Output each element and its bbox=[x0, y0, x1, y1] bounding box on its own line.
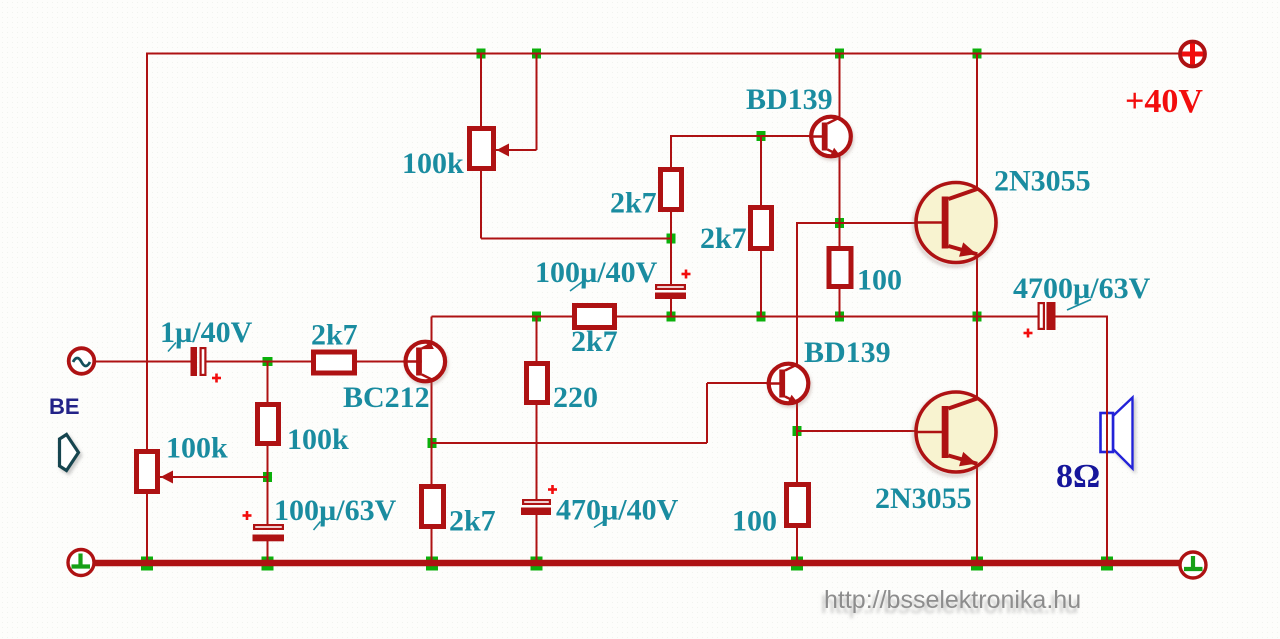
svg-text:+40V: +40V bbox=[1125, 83, 1203, 120]
wire: 100 resistor to output bus bbox=[839, 287, 841, 317]
node: top rail / pot 100k wiper bbox=[532, 49, 541, 59]
node: output bus / 2k7 bbox=[757, 312, 766, 322]
label 2k7 (output bus) bbox=[571, 325, 618, 358]
wire: speaker drop overlay bbox=[1106, 404, 1108, 460]
wire: pot1 wiper up to rail bbox=[536, 54, 538, 151]
capacitor 1u/40V bbox=[191, 347, 222, 383]
wire: 2k7 to BC212 base bbox=[356, 361, 422, 363]
svg-text:BC212: BC212 bbox=[343, 381, 430, 414]
potentiometer 100k (input, bottom-left) bbox=[137, 452, 174, 492]
label 470u/40V bbox=[556, 494, 679, 528]
label 4700u/63V bbox=[1013, 272, 1151, 310]
node: top rail / BD139 collector bbox=[835, 49, 844, 59]
transistor BD139 (lower driver) bbox=[767, 364, 810, 406]
resistor 220 bbox=[527, 364, 548, 403]
node: pot2 wiper junction bbox=[263, 472, 272, 482]
svg-text:BD139: BD139 bbox=[746, 83, 833, 116]
wire: 100u/63V cap to ground rail bbox=[267, 540, 269, 563]
label 100k (input resistor) bbox=[287, 423, 349, 456]
wire: 100k to pot2 wiper node and 100u/63V cap bbox=[267, 445, 269, 525]
transistor 2N3055 (lower output) bbox=[914, 392, 996, 476]
wire: emitter node left to lower BD139 collector bbox=[797, 222, 841, 224]
label 100 (bottom) bbox=[732, 505, 777, 538]
wire: 2k7 (761) bottom to output bus bbox=[760, 249, 762, 317]
node: output bus / 100 resistor bbox=[835, 312, 844, 322]
transistor BC212 (input PNP) bbox=[403, 341, 446, 384]
wire: 2k7 to ground rail bbox=[431, 528, 433, 563]
label 100u/63V bbox=[274, 494, 397, 530]
wire: pot2 wiper to node bbox=[160, 476, 268, 478]
wire: BC212 collector down bbox=[431, 378, 433, 485]
svg-text:100k: 100k bbox=[402, 147, 464, 180]
wire: output bus left segment bbox=[432, 316, 574, 318]
wire: pot1 top from rail bbox=[480, 54, 482, 129]
label BD139 (top) bbox=[746, 83, 833, 116]
wire: pot1 wiper stub bbox=[496, 149, 537, 151]
wire: BD139 base line bbox=[671, 135, 814, 137]
wire: output bus mid segment bbox=[616, 316, 1039, 318]
input arrow marker (BE) bbox=[60, 435, 79, 471]
wire: 220 top to output bus bbox=[536, 317, 538, 364]
wire: top +40V rail bbox=[147, 53, 1180, 55]
wire: 2N3055 collector-emitter vertical bbox=[976, 54, 978, 564]
resistor 2k7 (output bus) bbox=[575, 306, 615, 328]
label 2k7 (input) bbox=[311, 319, 358, 352]
label 1u/40V bbox=[160, 316, 253, 352]
resistor 2k7 (BC212 collector) bbox=[422, 487, 444, 527]
svg-text:2N3055: 2N3055 bbox=[994, 165, 1091, 198]
node: BC212 collector / BD139 base bbox=[428, 438, 437, 448]
label site url bbox=[821, 586, 1081, 619]
wire: 2k7 (761) top to base node bbox=[760, 136, 762, 207]
svg-text:100µ/63V: 100µ/63V bbox=[274, 494, 397, 527]
node: lower BD139 emitter / 2N3055 base bbox=[793, 426, 802, 436]
svg-text:BE: BE bbox=[49, 394, 80, 419]
svg-text:2N3055: 2N3055 bbox=[875, 482, 972, 515]
wire: 2k7 top bend to BD139 base bbox=[670, 135, 672, 169]
wire: BD139 collector from rail / emitter chain bbox=[839, 54, 841, 249]
wire: left rail from +40V down to pot bbox=[146, 53, 148, 451]
svg-text:4700µ/63V: 4700µ/63V bbox=[1013, 272, 1151, 305]
label 2k7 (BC212 collector) bbox=[449, 505, 496, 538]
ground terminal (left) bbox=[68, 550, 94, 576]
transistor BD139 (top driver) bbox=[809, 117, 852, 159]
wire: BD139 emitter node to 2N3055 base bbox=[840, 222, 944, 224]
label +40V bbox=[1125, 83, 1203, 120]
svg-text:2k7: 2k7 bbox=[311, 319, 358, 352]
node: ground rail x=536.5 bbox=[531, 557, 543, 571]
node: ground rail x=432 bbox=[426, 557, 438, 571]
wire: node down to 100u/40V cap bbox=[670, 239, 672, 286]
label BD139 (lower) bbox=[804, 336, 891, 369]
label 100u/40V bbox=[535, 256, 658, 291]
wire: 220 bottom to 470u cap bbox=[536, 403, 538, 500]
wire: output bus to speaker corner bbox=[1055, 316, 1108, 318]
label 100k (pot2) bbox=[166, 432, 228, 465]
wire: 1u cap to 2k7 bbox=[206, 361, 312, 363]
svg-text:http://bsselektronika.hu: http://bsselektronika.hu bbox=[824, 586, 1081, 614]
svg-text:BD139: BD139 bbox=[804, 336, 891, 369]
wire: lower BD139 collector drop bbox=[796, 222, 798, 484]
node: output bus / 220 bbox=[532, 312, 541, 322]
label BC212 bbox=[343, 381, 430, 414]
wire: lower BD139 emitter node to lower 2N3055 base bbox=[797, 430, 943, 432]
capacitor 100u/63V bbox=[243, 511, 285, 541]
node: BD139 base / 2k7 bbox=[757, 131, 766, 141]
node: pot bottom / 2k7 junction bbox=[667, 234, 676, 244]
capacitor 100u/40V bbox=[655, 270, 691, 300]
resistor 2k7 (input) bbox=[314, 352, 355, 373]
signal source (sine input) bbox=[69, 348, 95, 374]
wire: BC212 collector to lower BD139 base run bbox=[432, 442, 707, 444]
node: output bus / 2N3055 emitter bbox=[973, 312, 982, 322]
resistor 100 (top) bbox=[829, 249, 851, 287]
label 220 bbox=[553, 381, 598, 414]
potentiometer 100k (top) bbox=[470, 129, 510, 169]
label 100k (top pot) bbox=[402, 147, 464, 180]
svg-text:8Ω: 8Ω bbox=[1056, 458, 1100, 495]
node: BD139 emitter / 2N3055 base bbox=[835, 218, 844, 228]
node: ground rail x=797 bbox=[791, 557, 803, 571]
svg-text:100: 100 bbox=[732, 505, 777, 538]
capacitor 4700u/63V bbox=[1024, 302, 1056, 338]
wire: 2k7 bottom to node bbox=[670, 210, 672, 239]
svg-text:100k: 100k bbox=[287, 423, 349, 456]
transistor 2N3055 (upper output) bbox=[914, 183, 996, 267]
capacitor 470u/40V bbox=[521, 485, 557, 515]
resistor 100 (bottom) bbox=[787, 485, 809, 526]
wire: ground rail bbox=[94, 560, 1180, 567]
wire: lower BD139 base line bbox=[707, 382, 770, 384]
svg-text:100µ/40V: 100µ/40V bbox=[535, 256, 658, 289]
resistor 2k7 (671) bbox=[661, 170, 682, 210]
label 2k7 (671) bbox=[610, 187, 657, 220]
label 2N3055 (lower) bbox=[875, 482, 972, 515]
wire: lower BD139 base riser bbox=[706, 383, 708, 443]
resistor 2k7 (761) bbox=[751, 208, 772, 249]
node: output bus / 100u cap bbox=[667, 312, 676, 322]
label BE bbox=[49, 394, 80, 419]
speaker 8 ohm bbox=[1101, 398, 1133, 469]
wire: pot1 bottom bus to 2k7 node bbox=[481, 238, 672, 240]
node: input / 100k top bbox=[263, 357, 273, 366]
svg-text:2k7: 2k7 bbox=[700, 222, 747, 255]
svg-text:2k7: 2k7 bbox=[571, 325, 618, 358]
wire: pot2 bottom to ground rail bbox=[146, 493, 148, 563]
wire: 470u cap to ground rail bbox=[536, 514, 538, 563]
svg-text:220: 220 bbox=[553, 381, 598, 414]
label 2N3055 (top) bbox=[994, 165, 1091, 198]
node: ground rail x=267.5 bbox=[262, 557, 274, 571]
resistor 100k (input) bbox=[258, 405, 279, 444]
label 8 ohm bbox=[1056, 458, 1100, 495]
ground terminal (right) bbox=[1180, 552, 1206, 578]
node: ground rail x=147 bbox=[141, 557, 153, 571]
svg-text:2k7: 2k7 bbox=[610, 187, 657, 220]
svg-text:470µ/40V: 470µ/40V bbox=[556, 494, 679, 527]
node: ground rail x=1107 bbox=[1101, 557, 1113, 571]
wire: pot1 bottom down bbox=[480, 170, 482, 239]
node: top rail / 2N3055 collector bbox=[973, 49, 982, 59]
wire: input source to 1u cap bbox=[95, 361, 192, 363]
node: top rail / pot 100k top bbox=[477, 49, 486, 59]
wire: input node down to 100k bbox=[267, 362, 269, 405]
wire: lower 100 resistor to ground rail bbox=[796, 527, 798, 563]
svg-text:2k7: 2k7 bbox=[449, 505, 496, 538]
svg-text:100k: 100k bbox=[166, 432, 228, 465]
wire: 100u/40V cap to output bus bbox=[670, 298, 672, 317]
label 100 (top) bbox=[857, 264, 902, 297]
wire: speaker drop bbox=[1106, 316, 1108, 564]
+40V supply terminal bbox=[1180, 42, 1205, 67]
node: ground rail x=977 bbox=[971, 557, 983, 571]
svg-text:100: 100 bbox=[857, 264, 902, 297]
wire: BC212 emitter up to output bus bbox=[431, 317, 433, 346]
label 2k7 (761) bbox=[700, 222, 747, 255]
